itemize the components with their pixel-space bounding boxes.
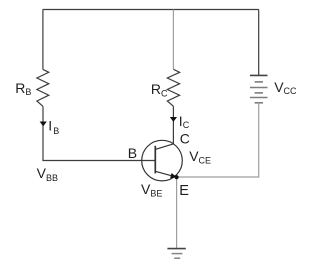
svg-text:C: C — [180, 130, 190, 146]
svg-text:B: B — [128, 145, 137, 161]
svg-text:E: E — [179, 183, 189, 199]
